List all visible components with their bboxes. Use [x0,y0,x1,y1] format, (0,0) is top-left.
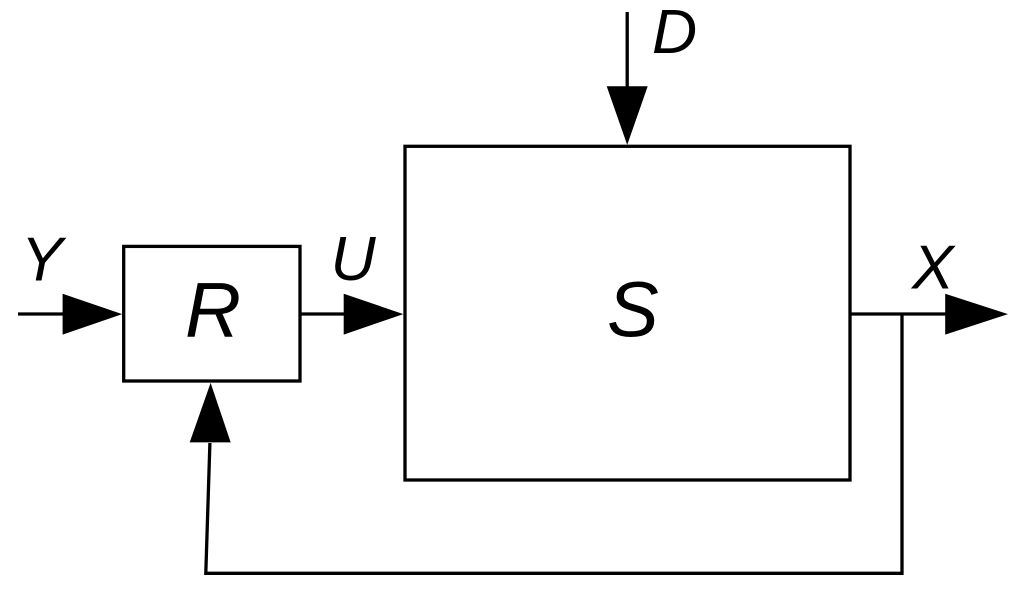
wire X output [850,312,947,315]
svg-text:Y: Y [21,225,67,295]
wire U from R to S [301,312,345,315]
arrowhead D into S [607,86,648,145]
wire D disturbance input [626,12,629,88]
arrowhead X output [945,294,1008,335]
block R [124,246,300,381]
svg-text:X: X [910,233,956,303]
svg-text:U: U [331,224,377,294]
svg-text:S: S [607,267,659,353]
arrowhead Y into R [63,294,123,335]
arrowhead feedback into R bottom [190,383,231,443]
wire feedback from X down, across bottom, and up to R [206,314,902,573]
block S [405,146,850,480]
arrowhead U into S [344,294,404,335]
wire Y input [18,312,64,315]
svg-text:R: R [185,268,241,354]
svg-text:D: D [652,0,697,67]
